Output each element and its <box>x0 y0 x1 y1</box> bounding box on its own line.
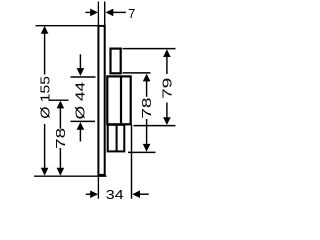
extension line lower knob bottom (78 right) <box>128 151 156 153</box>
arrowhead 78R up <box>143 74 151 82</box>
arrowhead 78R down <box>143 144 151 152</box>
arrowhead 79 down <box>163 117 171 125</box>
dimension 34 right stem <box>139 193 148 195</box>
svg-text:79: 79 <box>160 78 175 99</box>
dimension d44 line <box>79 54 81 69</box>
svg-text:78: 78 <box>53 128 68 149</box>
lower knob <box>108 125 125 152</box>
dimension 78 right line <box>146 81 148 97</box>
svg-text:Ø 44: Ø 44 <box>72 82 87 120</box>
arrowhead 7 left <box>90 9 98 17</box>
escutcheon plate (side view) <box>98 26 104 175</box>
dimension 34 left stem <box>86 193 91 195</box>
arrowhead d44 up <box>77 122 85 130</box>
svg-text:34: 34 <box>106 187 124 202</box>
upper knob <box>111 49 121 74</box>
extension line upper knob bottom (78 right) <box>123 72 151 74</box>
extension line knob bottom (d44) <box>71 120 96 122</box>
arrowhead 78L down <box>57 168 65 176</box>
dimension 79 line <box>166 56 168 74</box>
svg-text:78: 78 <box>139 97 154 118</box>
svg-text:Ø 155: Ø 155 <box>37 76 52 119</box>
arrowhead d155 down <box>41 168 49 176</box>
extension line knob centerline (78 left) <box>49 99 69 101</box>
arrowhead 34 left <box>90 190 98 198</box>
dimension 7 right stem <box>113 11 126 13</box>
arrowhead 79 up <box>163 49 171 57</box>
wall line <box>97 2 99 199</box>
extension line knob top (d44) <box>71 76 96 78</box>
middle knob body <box>107 76 130 124</box>
extension line middle knob bottom (79) <box>134 125 176 127</box>
extension line plate top left <box>36 25 99 27</box>
arrowhead 78L up <box>57 101 65 109</box>
extension line plate bottom baseline <box>34 175 107 177</box>
dimension d155 line <box>44 34 46 75</box>
dimension 78 left line <box>59 108 61 129</box>
dimension 7 left stem <box>86 11 91 13</box>
arrowhead d44 down <box>77 68 85 76</box>
middle knob inner line <box>120 78 122 124</box>
arrowhead d155 up <box>41 26 49 34</box>
svg-text:7: 7 <box>128 6 135 21</box>
extension line 34 right <box>131 125 133 199</box>
arrowhead 34 right <box>132 190 140 198</box>
arrowhead 7 right <box>106 9 114 17</box>
extension line plate front (7 dim) <box>104 2 106 26</box>
lower knob inner line <box>116 125 118 152</box>
extension line upper knob top (79) <box>123 48 176 50</box>
